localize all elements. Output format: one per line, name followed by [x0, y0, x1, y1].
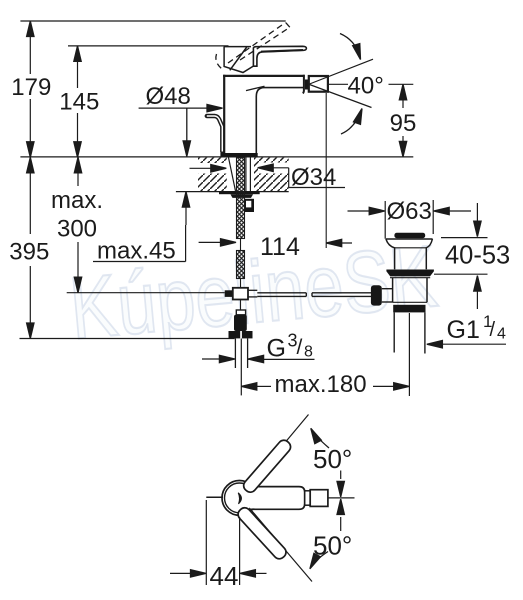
handle boss [224, 47, 253, 73]
wire: second reference line (handle level) [68, 45, 229, 47]
svg-text:Ø63: Ø63 [387, 198, 432, 225]
drain flange [386, 239, 433, 269]
svg-text:G1: G1 [447, 316, 480, 344]
svg-text:44: 44 [210, 561, 239, 591]
svg-text:4: 4 [497, 326, 506, 343]
countertop hatch right [254, 158, 289, 192]
svg-text:max.: max. [51, 187, 103, 214]
centerline right [328, 497, 355, 499]
wire: spout vertical reference line [325, 93, 327, 248]
countertop hatch left [198, 158, 227, 192]
tailpipe nut [393, 301, 427, 303]
svg-text:50°: 50° [313, 531, 352, 561]
lever underside accent [261, 50, 303, 52]
node 179 dimension [11, 21, 51, 157]
svg-text:max.45: max.45 [97, 238, 176, 265]
spray arcs [340, 34, 360, 57]
hose bracket [245, 199, 254, 212]
label max.45 with box [93, 192, 236, 265]
label 40° [329, 34, 414, 135]
faucet body ring (escutcheon) [222, 481, 257, 516]
node 44 dimension [170, 500, 267, 591]
wire: top reference line (spout tip level) [20, 20, 285, 22]
horizontal pop-up rod [257, 293, 371, 297]
wire: countertop surface line [20, 156, 413, 158]
body top edge [223, 75, 305, 77]
supply pipes [234, 339, 236, 369]
pop-up rod knob (left of body) [207, 116, 223, 152]
cross fitting [225, 290, 233, 297]
svg-text:/: / [490, 319, 496, 341]
pop rod top view [206, 496, 223, 498]
dashed raised handle [216, 23, 290, 71]
spout underside [256, 88, 303, 154]
label Ø48 [139, 83, 223, 156]
knurled knob [234, 315, 247, 331]
wire: max300 bottom reference line (rod level) [67, 292, 225, 294]
top-view handle up [241, 438, 293, 495]
svg-text:max.180: max.180 [275, 371, 367, 398]
node max.180 dimension [241, 371, 409, 398]
mounting nut [230, 194, 253, 198]
threaded rod lower [240, 239, 242, 251]
hex nut [229, 331, 241, 338]
threaded rod upper [237, 158, 245, 239]
upper 50 diagonal [243, 415, 309, 494]
svg-text:G: G [267, 335, 286, 363]
lower 50 diagonal [252, 511, 312, 582]
svg-text:179: 179 [11, 74, 51, 101]
spray cone lines [310, 59, 374, 84]
svg-text:395: 395 [9, 239, 49, 266]
handle lever [253, 46, 306, 66]
drain lower body [393, 278, 427, 303]
top-view spout [250, 488, 304, 509]
upper 50° label [308, 427, 353, 474]
node 95 dimension [390, 84, 417, 157]
aerator [305, 59, 373, 107]
node Ø63 dimension [348, 198, 472, 239]
svg-text:40-53: 40-53 [445, 242, 510, 270]
label G 3/8 [202, 331, 315, 363]
svg-text:Ø48: Ø48 [146, 83, 191, 110]
spout right edge [303, 75, 304, 94]
tailpipe [393, 312, 395, 352]
node max.300 dimension [51, 157, 103, 292]
svg-text:Ø34: Ø34 [291, 164, 336, 191]
body left edge [223, 75, 225, 153]
clamp disc [386, 270, 434, 277]
node 395 dimension [9, 157, 49, 338]
shank tube in hole [245, 158, 247, 192]
label 114 [260, 233, 352, 261]
svg-text:40°: 40° [348, 73, 384, 100]
label G1 1/4 [427, 312, 506, 348]
label Ø34 [188, 163, 345, 192]
svg-text:114: 114 [260, 233, 300, 261]
faucet body front [220, 75, 304, 157]
horseshoe washer [219, 191, 260, 194]
svg-text:/: / [297, 336, 303, 359]
svg-text:50°: 50° [313, 444, 352, 474]
wire: countertop bottom line [176, 191, 289, 193]
svg-text:300: 300 [57, 216, 97, 243]
hub mark [238, 493, 241, 504]
mid angle arrows [337, 471, 344, 532]
knurled adjuster knob [371, 285, 382, 305]
svg-text:95: 95 [390, 110, 417, 137]
mounting below counter [219, 158, 260, 396]
svg-text:145: 145 [59, 89, 99, 116]
top-view handle down [236, 505, 289, 561]
svg-text:8: 8 [304, 344, 313, 361]
node 40-53 dimension [434, 203, 510, 309]
lower 50° label [307, 531, 353, 571]
adapter block [236, 310, 245, 315]
drain plug [394, 233, 425, 239]
wire: 395 bottom reference line [20, 338, 235, 340]
base plate [220, 153, 257, 157]
node 145 dimension [59, 46, 99, 157]
accent line [246, 86, 265, 90]
